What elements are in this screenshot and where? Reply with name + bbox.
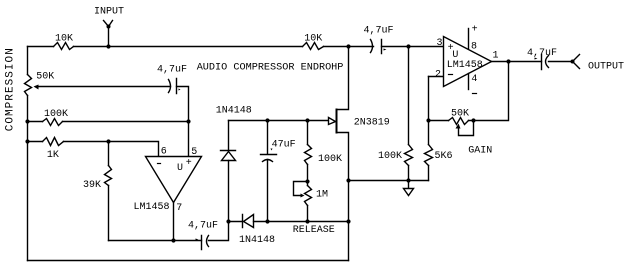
node: source column / diode row junction xyxy=(346,219,350,223)
svg-text:1: 1 xyxy=(493,50,499,61)
wiper loop of 1M pot xyxy=(294,182,308,196)
wire: bottom mid wire 39K to capacitor xyxy=(109,240,202,242)
input terminal xyxy=(104,21,113,27)
node: 39K tap on 1K wire xyxy=(106,139,110,143)
resistor 5K6 xyxy=(425,145,433,166)
node: rail/1K junction xyxy=(25,139,29,143)
op-amp U2 LM1458 xyxy=(444,37,492,87)
svg-text:1N4148: 1N4148 xyxy=(216,106,252,117)
wire: capacitor to U1 pin 5 xyxy=(177,87,189,157)
svg-text:50K: 50K xyxy=(451,109,469,120)
node: 5K6 / gain pot junction xyxy=(426,118,430,122)
wire: U2 pin 2 xyxy=(429,76,444,78)
diode 1N4148 (vertical) xyxy=(221,121,236,151)
resistor 100K (release, mid) xyxy=(305,145,312,165)
svg-text:2: 2 xyxy=(435,70,441,81)
JFET source lead xyxy=(337,133,349,261)
svg-text:COMPRESSION: COMPRESSION xyxy=(4,47,16,131)
wire: rail to 1K resistor to U1 pin 6 xyxy=(28,142,159,157)
potentiometer 50K COMPRESSION (on rail) xyxy=(25,75,32,96)
wire: 39K column xyxy=(108,142,110,241)
wire: ground row xyxy=(349,180,429,182)
svg-text:4: 4 xyxy=(471,74,477,85)
JFET gate arrow xyxy=(329,118,336,125)
svg-text:+: + xyxy=(186,158,192,169)
diode 1N4148 (horizontal) xyxy=(229,215,243,228)
svg-text:LM1458: LM1458 xyxy=(447,60,483,71)
op-amp U2 minus input marker xyxy=(449,74,453,76)
wire: 47uF bottom to diode row xyxy=(267,160,269,222)
wire: capacitor to diode node xyxy=(209,222,229,241)
U2 pin 8 power lead xyxy=(468,29,470,49)
node: rail/100K junction xyxy=(25,119,29,123)
wire: vertical diode anode to diode row xyxy=(228,161,230,222)
svg-text:4,7uF: 4,7uF xyxy=(527,48,557,59)
node: source column / ground row junction xyxy=(346,178,350,182)
capacitor 4,7uF (compression wiper, polarized) xyxy=(169,79,177,94)
transistor Q1 2N3819 JFET channel bar xyxy=(336,110,338,133)
wire: main top node from left rail to op-amp U2 pin 3 xyxy=(28,46,444,48)
svg-text:LM1458: LM1458 xyxy=(134,202,170,213)
node: 47uF bottom junction xyxy=(265,219,269,223)
node: drain / cap junction on main wire xyxy=(346,44,350,48)
wire: 5K6 column xyxy=(428,77,430,181)
wire: input terminal to main node xyxy=(108,27,110,47)
svg-text:100K: 100K xyxy=(318,154,342,165)
wire: bottom outer wire xyxy=(28,260,349,262)
svg-text:47uF: 47uF xyxy=(272,140,296,151)
wire: rail to 100K resistor to pin5 column xyxy=(28,121,189,123)
node: 1M bottom junction xyxy=(305,219,309,223)
node: output / feedback junction xyxy=(506,59,510,63)
svg-text:2N3819: 2N3819 xyxy=(354,118,390,129)
svg-text:4,7uF: 4,7uF xyxy=(157,65,187,76)
node: diode row left junction xyxy=(226,219,230,223)
wiper arrow of 50K compression pot xyxy=(34,85,39,90)
node: pin3 / 100K junction on main wire xyxy=(406,44,410,48)
svg-text:5K6: 5K6 xyxy=(435,151,453,162)
wire: diode row to JFET source column xyxy=(254,221,349,223)
svg-text:U: U xyxy=(177,163,183,174)
svg-text:7: 7 xyxy=(176,203,182,214)
resistor 100K (feedback, left) xyxy=(43,119,63,126)
wire: gain pot row xyxy=(429,62,509,121)
wire: gate line from diode column to JFET gate xyxy=(229,120,329,122)
svg-text:10K: 10K xyxy=(55,34,73,45)
svg-text:RELEASE: RELEASE xyxy=(293,225,335,236)
wire: U2 output to output cap xyxy=(492,61,542,63)
svg-text:3: 3 xyxy=(437,38,443,49)
svg-text:10K: 10K xyxy=(304,34,322,45)
wire: output cap to output terminal xyxy=(549,61,573,63)
capacitor 4,7uF (output, polarized) xyxy=(542,55,549,70)
node: 100K top junction xyxy=(305,118,309,122)
svg-text:GAIN: GAIN xyxy=(468,145,492,156)
node: pin5 / 100K junction xyxy=(186,119,190,123)
JFET drain lead xyxy=(337,47,349,110)
svg-text:100K: 100K xyxy=(378,151,402,162)
node: 47uF top junction xyxy=(265,118,269,122)
potentiometer 50K GAIN xyxy=(449,118,469,125)
resistor 10K (input left) xyxy=(54,43,74,50)
svg-text:100K: 100K xyxy=(44,109,68,120)
svg-text:AUDIO COMPRESSOR ENDROHP: AUDIO COMPRESSOR ENDROHP xyxy=(197,63,344,74)
node: 1M wiper tie junction xyxy=(305,179,309,183)
wire: 100K release column xyxy=(307,121,309,222)
svg-text:1N4148: 1N4148 xyxy=(239,235,275,246)
wire: compression wiper to capacitor 4,7uF xyxy=(37,86,171,88)
op-amp U2 pin4 minus marker xyxy=(473,93,477,95)
svg-text:1K: 1K xyxy=(47,150,59,161)
output terminal xyxy=(571,60,575,64)
svg-text:4,7uF: 4,7uF xyxy=(188,221,218,232)
capacitor 47uF (polarized, vertical) xyxy=(261,121,277,162)
capacitor 4,7uF (series to U2, polarized) xyxy=(371,40,382,54)
svg-text:1M: 1M xyxy=(316,190,328,201)
potentiometer 1M RELEASE xyxy=(305,186,312,206)
svg-text:8: 8 xyxy=(471,41,477,52)
svg-text:50K: 50K xyxy=(36,72,54,83)
resistor 1K xyxy=(43,138,64,146)
U2 pin 4 power lead xyxy=(468,74,470,90)
wire: U1 pin 7 to bottom wire xyxy=(173,203,175,241)
op-amp U1 LM1458 (pointing down) xyxy=(146,157,202,203)
resistor 39K xyxy=(105,166,112,186)
ground xyxy=(408,181,410,189)
svg-text:6: 6 xyxy=(161,147,167,158)
node: input junction xyxy=(106,44,110,48)
node: ground stub junction xyxy=(406,178,410,182)
node: pin7 / bottom wire junction xyxy=(171,238,175,242)
op-amp U1 minus input marker xyxy=(158,163,161,165)
wire: left rail xyxy=(27,47,29,261)
capacitor 4,7uF (bottom, polarized) xyxy=(202,236,209,250)
svg-text:39K: 39K xyxy=(83,180,101,191)
resistor 100K (right, to ground) xyxy=(405,145,413,166)
svg-text:+: + xyxy=(472,24,478,35)
svg-text:5: 5 xyxy=(191,147,197,158)
resistor 10K (series to U2) xyxy=(303,43,324,50)
wire: 100K right column (U2 pin3 to ground row) xyxy=(408,47,410,181)
node: gain wiper tie junction xyxy=(471,118,475,122)
svg-text:INPUT: INPUT xyxy=(94,7,124,18)
svg-text:4,7uF: 4,7uF xyxy=(364,26,394,37)
wiper of gain pot xyxy=(456,124,461,129)
svg-text:OUTPUT: OUTPUT xyxy=(588,62,624,73)
